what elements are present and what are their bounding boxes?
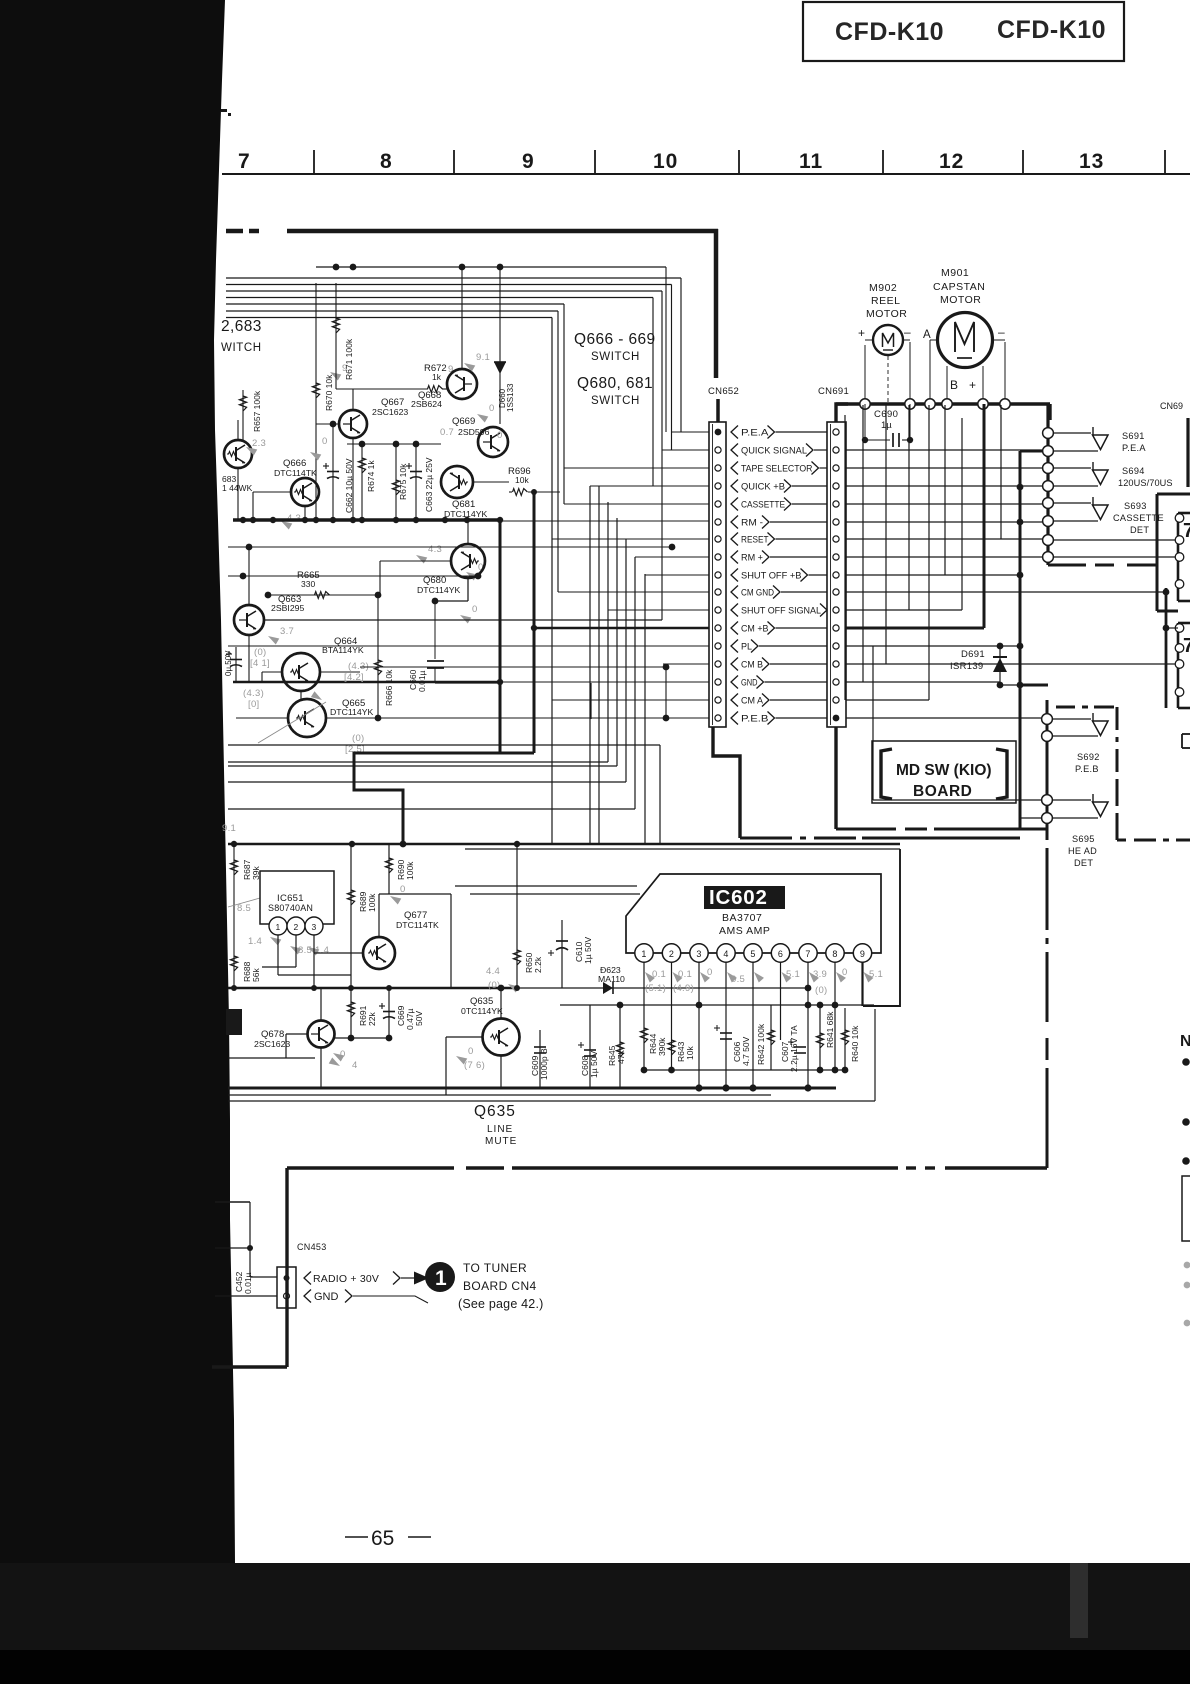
wire row y=444 (347, 443, 441, 445)
CN652/CN691 row CM GND (715, 589, 721, 595)
capacitor C608 1u 50V (589, 1005, 591, 1088)
resistor R690 100k (388, 844, 390, 894)
board border top solid (287, 229, 718, 234)
svg-text:10k: 10k (515, 475, 529, 485)
svg-text:2SB624: 2SB624 (411, 399, 442, 409)
IC602 outer box right edge (863, 849, 900, 1006)
svg-text:50V: 50V (414, 1011, 424, 1026)
diode D660 1SS133 (499, 355, 501, 424)
svg-text:R670 10k: R670 10k (324, 374, 334, 411)
svg-text:0: 0 (322, 436, 328, 447)
svg-text:IC602: IC602 (709, 886, 768, 909)
svg-text:(4.9): (4.9) (673, 983, 694, 994)
dash-dot S-board outline top (1056, 706, 1075, 709)
cut-off text fragment top left (221, 109, 227, 112)
svg-text:7: 7 (238, 150, 251, 173)
CN652/CN691 row RM + (715, 554, 721, 560)
switch S695 wires+symbol (1052, 799, 1091, 801)
wire bus y=1070 (644, 1069, 845, 1071)
capacitor C610 1u 50V (561, 920, 563, 988)
dash-dot border y=829 (836, 828, 896, 831)
svg-text:R657 100k: R657 100k (252, 390, 262, 432)
svg-text:CM A: CM A (741, 695, 764, 705)
svg-text:9: 9 (860, 949, 865, 959)
svg-text:0µ 50V: 0µ 50V (224, 650, 233, 676)
MD SW label brackets (881, 749, 892, 799)
svg-text:2: 2 (669, 949, 674, 959)
dash-dot border y=838 (740, 837, 792, 840)
svg-text:0.1: 0.1 (652, 969, 666, 980)
resistor R670 10k (315, 283, 317, 520)
svg-text:0.5: 0.5 (731, 974, 745, 985)
svg-text:8: 8 (380, 150, 393, 173)
CN652/CN691 row RESET (715, 536, 721, 542)
capacitor C660 0.01u (467, 578, 469, 601)
resistor R643 10k (668, 1040, 675, 1055)
svg-text:+: + (969, 378, 976, 392)
svg-text:5: 5 (750, 949, 755, 959)
svg-text:0: 0 (707, 967, 713, 978)
label RADIO+30V (304, 1272, 311, 1285)
svg-text:DTC114YK: DTC114YK (417, 585, 460, 595)
gray pointer line (258, 702, 326, 743)
svg-text:1 44WK: 1 44WK (222, 483, 253, 493)
svg-text:CN652: CN652 (708, 386, 739, 397)
svg-text:MOTOR: MOTOR (866, 308, 907, 320)
svg-text:B: B (950, 378, 958, 392)
dash-dot S-board outline bottom (1117, 839, 1126, 842)
resistor R691 22k (350, 988, 352, 1038)
thick vertical x=1166 (1165, 588, 1168, 708)
svg-text:0: 0 (497, 430, 503, 441)
thick S-row vertical with circles x=1048 (1046, 404, 1049, 565)
svg-text:0: 0 (468, 1046, 474, 1057)
right edge thick wire y=494 (1157, 493, 1190, 496)
wire to S695 via x=873 (872, 646, 874, 800)
svg-text:330: 330 (301, 579, 315, 589)
resistor R666 10k (377, 595, 379, 718)
resistor R688 56k (230, 956, 237, 971)
wire GND row extension right (846, 681, 1000, 683)
IC651 pin wires (277, 935, 279, 975)
svg-text:3: 3 (312, 922, 317, 932)
rows left stubs into CN652 (672, 431, 710, 433)
svg-text:R674 1k: R674 1k (366, 460, 376, 492)
junction dots top rail (333, 264, 340, 271)
resistor R675 10k (395, 444, 397, 520)
resistor R645 47k (619, 1005, 621, 1088)
svg-text:1µ: 1µ (881, 420, 892, 431)
svg-text:CASSETTE: CASSETTE (741, 499, 785, 509)
wire row y=762 (228, 761, 608, 763)
svg-text:GND: GND (314, 1291, 339, 1303)
resistor R657 100k (242, 390, 244, 440)
svg-text:CAPSTAN: CAPSTAN (933, 281, 985, 293)
capacitor C607 2.2u 16V TA (794, 1046, 806, 1048)
svg-text:SWITCH: SWITCH (591, 395, 640, 407)
svg-text:MA110: MA110 (598, 974, 625, 984)
svg-text:BOARD CN4: BOARD CN4 (463, 1279, 537, 1293)
svg-text:–: – (998, 325, 1005, 339)
resistor R644 390k (640, 1028, 647, 1043)
S692 S695 thick vertical x=1047 (1046, 700, 1049, 840)
svg-text:S693: S693 (1124, 501, 1147, 511)
page number 65 (345, 1536, 368, 1538)
svg-text:R671 100k: R671 100k (344, 338, 354, 380)
thick bus2 y=988 (228, 987, 517, 989)
right edge gray bullets (1184, 1262, 1190, 1269)
motor bus thick y=404 (836, 402, 1050, 405)
svg-text:R640 10k: R640 10k (850, 1025, 860, 1062)
svg-text:(4.3): (4.3) (243, 688, 264, 699)
rows right of CN691 (846, 449, 1043, 451)
dash-dot S-board outline right (1116, 707, 1119, 730)
svg-text:6: 6 (778, 949, 783, 959)
wire row y=808 (228, 808, 635, 810)
ruler ticks (313, 150, 315, 174)
motor M902 (873, 325, 903, 355)
svg-text:1µ 50V: 1µ 50V (583, 937, 593, 964)
CN652 bottom thick L (713, 727, 740, 838)
svg-text:BOARD: BOARD (913, 783, 972, 800)
wire row y=766 (228, 765, 617, 767)
svg-text:0: 0 (400, 884, 406, 895)
wire row y=745 (228, 744, 660, 746)
board border dashed y=1168 (287, 1166, 454, 1169)
motor M901 capstan (938, 313, 993, 368)
wire Q667 base row (336, 388, 428, 390)
svg-text:RADIO + 30V: RADIO + 30V (313, 1273, 379, 1285)
svg-text:7: 7 (1183, 635, 1190, 657)
CN652/CN691 row QUICK +B (715, 483, 721, 489)
svg-text:R642 100k: R642 100k (756, 1023, 766, 1065)
CN652/CN691 row TAPE SELECTOR (715, 465, 721, 471)
IC602 pin wires down (643, 962, 645, 1070)
svg-text:(0): (0) (815, 985, 828, 996)
scanner bottom dark band (0, 1563, 1190, 1684)
wire D623 row y=988 (517, 987, 808, 989)
motor bus terminal circles (860, 399, 870, 409)
svg-text:CN69: CN69 (1160, 401, 1183, 411)
svg-text:RM -: RM - (741, 517, 763, 527)
switch S694 wires (1053, 467, 1091, 469)
CN652/CN691 row CASSETTE (715, 501, 721, 507)
svg-text:100k: 100k (405, 861, 415, 880)
svg-text:+: + (858, 326, 865, 340)
svg-text:SHUT OFF SIGNAL: SHUT OFF SIGNAL (741, 605, 821, 615)
IC602 pins (635, 944, 653, 962)
capacitor C663 22u 25V (415, 444, 417, 520)
svg-text:4.3: 4.3 (428, 544, 442, 555)
wire row y=1005 (560, 1004, 874, 1006)
svg-text:1: 1 (276, 922, 281, 932)
svg-text:(See page 42.): (See page 42.) (458, 1297, 544, 1311)
svg-text:1: 1 (641, 949, 646, 959)
svg-text:2: 2 (294, 922, 299, 932)
svg-text:HE AD: HE AD (1068, 846, 1097, 856)
IC651 S80740AN (260, 871, 334, 924)
thick vertical x=500 to GND row (499, 520, 502, 753)
svg-text:CFD-K10: CFD-K10 (835, 18, 944, 46)
svg-text:0.7: 0.7 (440, 427, 454, 438)
svg-text:MUTE: MUTE (485, 1136, 517, 1147)
resistor R641 68k (819, 1005, 821, 1070)
svg-text:10: 10 (653, 150, 678, 173)
svg-text:0.1: 0.1 (678, 969, 692, 980)
bottom left thick vertical x=287 (285, 1168, 288, 1367)
CN652/CN691 row PL (715, 643, 721, 649)
svg-text:CN453: CN453 (297, 1242, 327, 1252)
svg-text:(0): (0) (254, 647, 267, 658)
svg-text:WITCH: WITCH (221, 342, 262, 354)
wire row y=576 (228, 575, 478, 577)
CN652/CN691 row P.E.A (715, 429, 722, 436)
svg-text:4.7 50V: 4.7 50V (741, 1036, 751, 1066)
svg-text:M902: M902 (869, 282, 897, 294)
svg-text:0: 0 (489, 403, 495, 414)
svg-text:S692: S692 (1077, 752, 1100, 762)
thick bus y=844 (228, 843, 900, 846)
svg-text:ISR139: ISR139 (950, 661, 984, 672)
svg-text:S80740AN: S80740AN (268, 903, 313, 913)
svg-text:3: 3 (696, 949, 701, 959)
svg-text:GND: GND (741, 677, 758, 687)
svg-text:P.E.B: P.E.B (741, 713, 769, 723)
switch S692 wires+symbol (1052, 718, 1091, 720)
svg-text:12: 12 (939, 150, 964, 173)
ruler line (222, 173, 1190, 175)
svg-text:390k: 390k (657, 1037, 667, 1056)
svg-text:47k: 47k (616, 1050, 626, 1064)
CN652/CN691 row CM A (715, 697, 721, 703)
svg-text:PL: PL (741, 641, 752, 651)
svg-text:CM GND: CM GND (741, 587, 774, 597)
svg-text:P.E.B: P.E.B (1075, 764, 1099, 774)
svg-text:7: 7 (1183, 520, 1190, 542)
resistor R642 100k (770, 1005, 772, 1070)
svg-text:0.01µ: 0.01µ (243, 1272, 253, 1294)
svg-text:D691: D691 (961, 649, 985, 660)
svg-text:[4.2]: [4.2] (344, 672, 364, 683)
long wires y=1095 y=1101 (228, 1094, 771, 1096)
svg-text:AMS AMP: AMS AMP (719, 925, 770, 937)
svg-text:RESET: RESET (741, 534, 769, 544)
svg-text:DTC114TK: DTC114TK (396, 920, 439, 930)
switch S692 circles (1042, 714, 1053, 725)
CN691 top thick wire to motor bus (836, 404, 848, 422)
resistor R689 100k (350, 844, 352, 988)
row 718 corner vertical (590, 683, 592, 719)
switch S695 circles (1042, 795, 1053, 806)
svg-text:RM +: RM + (741, 552, 763, 562)
svg-text:SWITCH: SWITCH (591, 351, 640, 363)
wire Q665 output row y=718 (326, 717, 666, 719)
svg-text:2SC1623: 2SC1623 (254, 1039, 290, 1049)
capacitor C669 0.47 50V (388, 988, 390, 1038)
svg-text:0TC114YK: 0TC114YK (461, 1006, 503, 1016)
MD SW (K10) BOARD box (872, 741, 1016, 803)
right matrix verticals (844, 415, 846, 700)
svg-text:4: 4 (352, 1060, 358, 1071)
wire GND meander (353, 1296, 428, 1303)
svg-text:2.2k: 2.2k (533, 956, 543, 973)
bundle corner verticals (680, 278, 682, 432)
switch S693 symbol (1092, 497, 1094, 505)
CN652/CN691 row SHUT OFF SIGNAL (715, 607, 721, 613)
CN652/CN691 row P.E.B (715, 715, 721, 721)
switch S691 symbol (1092, 427, 1094, 435)
wire to arrow (401, 1277, 414, 1279)
switch S693 wires (1053, 502, 1091, 504)
svg-text:5.1: 5.1 (869, 969, 883, 980)
IC602 pin voltage annotations (642, 970, 655, 983)
thick vertical x=534 (533, 492, 536, 753)
svg-text:9: 9 (522, 150, 535, 173)
thick vertical x=984 (983, 404, 986, 628)
svg-text:4: 4 (723, 949, 728, 959)
wire row y=620 from Q663 (264, 619, 662, 621)
resistor R687 39k (233, 844, 235, 988)
wire y=664 row to Q664 area (663, 663, 709, 665)
resistor R650 2.2k (516, 844, 518, 988)
thick bus y=1088 (228, 1087, 836, 1090)
board border dash-dot vertical x=1047 (1046, 848, 1049, 930)
CN652/CN691 row SHUT OFF +B (715, 572, 721, 578)
IC602 black label (704, 886, 785, 909)
right edge small box fragment (1182, 733, 1190, 735)
CN652/CN691 row CM B (715, 661, 721, 667)
svg-text:2,683: 2,683 (221, 318, 262, 335)
wires Q664/Q665 linking (262, 671, 282, 673)
outer thin line y=851 (465, 848, 900, 850)
svg-text:CFD-K10: CFD-K10 (997, 16, 1106, 44)
right edge partial connector box 1 (1178, 512, 1190, 515)
svg-text:CN691: CN691 (818, 386, 849, 397)
dash-dot from S column to right (1048, 564, 1086, 567)
wire y=1038 (335, 1037, 389, 1039)
circled 1 to tuner (425, 1262, 455, 1292)
svg-text:C663 22µ 25V: C663 22µ 25V (424, 457, 434, 512)
wire row y=774 (228, 774, 626, 782)
svg-text:1µ 50V: 1µ 50V (589, 1051, 599, 1078)
svg-text:REEL: REEL (871, 295, 900, 307)
svg-text:R666 10k: R666 10k (384, 669, 394, 706)
black blob component left edge (226, 1009, 242, 1035)
svg-text:S694: S694 (1122, 466, 1145, 476)
svg-text:0: 0 (842, 967, 848, 978)
right edge partial connector box 2 (1178, 622, 1190, 625)
wire Q668 top (461, 265, 463, 369)
svg-text:MD SW (KIO): MD SW (KIO) (896, 762, 992, 779)
svg-text:S691: S691 (1122, 431, 1145, 441)
label GND (304, 1290, 311, 1303)
CN652/CN691 row RM - (715, 519, 721, 525)
svg-text:13: 13 (1079, 150, 1104, 173)
title box CFD-K10 (803, 2, 1124, 61)
svg-text:22k: 22k (367, 1012, 377, 1026)
left wires to C452 (215, 1201, 250, 1203)
bottom left thick horizontal (212, 1365, 287, 1368)
svg-text:QUICK +B: QUICK +B (741, 481, 785, 491)
svg-text:Q669: Q669 (452, 416, 475, 427)
right edge note box (1182, 1176, 1190, 1241)
svg-text:0: 0 (340, 1049, 346, 1060)
switch S691 wires (1053, 432, 1091, 434)
svg-text:5.1: 5.1 (786, 969, 800, 980)
scanner black left band (0, 0, 235, 1563)
resistor R640 10k (844, 1008, 846, 1070)
svg-text:10k: 10k (685, 1046, 695, 1060)
svg-text:1k: 1k (432, 372, 442, 382)
svg-text:TO TUNER: TO TUNER (463, 1261, 527, 1275)
svg-text:DET: DET (1074, 858, 1093, 868)
svg-text:65: 65 (371, 1527, 394, 1550)
resistor R671 100k (335, 283, 337, 389)
svg-text:3.9: 3.9 (813, 969, 827, 980)
right edge thick stub top (1186, 418, 1189, 487)
svg-text:Q680, 681: Q680, 681 (577, 375, 653, 392)
svg-text:2SC1623: 2SC1623 (372, 407, 408, 417)
svg-text:M901: M901 (941, 267, 969, 279)
svg-text:S695: S695 (1072, 834, 1095, 844)
svg-text:1.4: 1.4 (248, 936, 262, 947)
svg-text:3.7: 3.7 (280, 626, 294, 637)
svg-text:4.4: 4.4 (486, 966, 500, 977)
wire row y=547 (228, 546, 672, 548)
svg-text:R641 68k: R641 68k (825, 1011, 835, 1048)
svg-text:SHUT OFF +B: SHUT OFF +B (741, 570, 802, 580)
board border right vertical (714, 229, 719, 378)
transistor Q683 (224, 440, 252, 468)
thick GND row left (233, 681, 500, 684)
crossing matrix verticals left of CN652 (551, 318, 553, 844)
svg-text:LINE: LINE (487, 1124, 513, 1135)
capacitor C609 1000p B (539, 1030, 541, 1088)
switch S694 symbol (1092, 462, 1094, 470)
thick zigzag from x=534 (354, 753, 534, 843)
svg-text:2SBI295: 2SBI295 (271, 603, 304, 613)
svg-text:DTC114TK: DTC114TK (274, 468, 317, 478)
IC602 body (626, 874, 881, 953)
svg-text:CM +B: CM +B (741, 623, 769, 633)
svg-text:1000p B: 1000p B (539, 1048, 549, 1080)
svg-text:DTC114YK: DTC114YK (330, 707, 373, 717)
svg-text:CM B: CM B (741, 659, 763, 669)
svg-text:0: 0 (472, 604, 478, 615)
board border top dashed segment (226, 229, 243, 234)
svg-text:MOTOR: MOTOR (940, 294, 981, 306)
thick CM+B wire right (846, 627, 984, 630)
svg-text:QUICK SIGNAL: QUICK SIGNAL (741, 445, 807, 455)
CN691 bottom thick (834, 727, 837, 829)
svg-text:2.3: 2.3 (252, 438, 266, 449)
svg-text:1: 1 (435, 1267, 447, 1290)
wire top rail y=267 Q666-669 block (316, 266, 666, 268)
capacitor C662 10u 50V (332, 424, 334, 520)
svg-text:100k: 100k (367, 893, 377, 912)
right edge note bullets (1182, 1058, 1190, 1066)
svg-text:7: 7 (805, 949, 810, 959)
svg-text:0.01µ: 0.01µ (417, 670, 427, 692)
wire rows to right edge box (1053, 539, 1176, 541)
CN652/CN691 row GND (715, 679, 721, 685)
svg-text:56k: 56k (251, 968, 261, 982)
svg-text:9.1: 9.1 (476, 352, 490, 363)
transistor Q681 DTC114YK (441, 466, 473, 498)
svg-text:DET: DET (1130, 525, 1149, 535)
CN652/CN691 row CM +B (715, 625, 721, 631)
capacitor left edge 10u 50V (235, 647, 237, 682)
